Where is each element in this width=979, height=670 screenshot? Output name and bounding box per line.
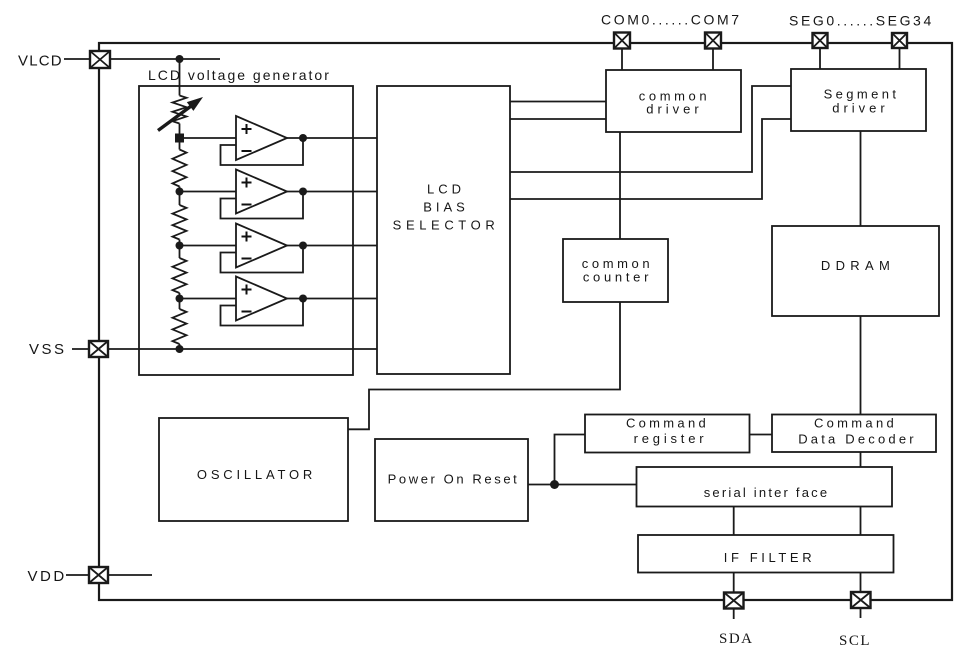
wire serial interface to IF filter left (733, 507, 735, 536)
svg-text:VDD: VDD (28, 568, 67, 585)
svg-text:VSS: VSS (29, 341, 67, 358)
node tap4 (176, 295, 184, 303)
node tap1 square junction (175, 134, 184, 143)
wire VLCD pin to ladder stub (109, 58, 220, 60)
op-amp U1 feedback loop (221, 138, 304, 165)
pin VDD (89, 567, 108, 583)
LCD voltage generator box (139, 86, 353, 375)
pin SDA (724, 593, 744, 609)
wire command register to command data decoder (750, 434, 773, 436)
resistor R4 (173, 258, 187, 293)
common driver box (606, 70, 741, 132)
wire COM7 pin to common driver (712, 49, 714, 71)
wire VSS pin to bias selector (108, 348, 377, 350)
svg-text:DDRAM: DDRAM (821, 258, 895, 273)
wire COM0 pin to common driver (621, 49, 623, 71)
svg-text:SEG0......SEG34: SEG0......SEG34 (789, 13, 934, 29)
wire VLCD tap down to variable resistor (179, 59, 181, 96)
node op-amp U1 output (299, 134, 307, 142)
wire bias selector to common driver line2 (510, 118, 606, 120)
wire tap1 to op-amp U1 input (180, 137, 237, 139)
resistor R3 (173, 205, 187, 240)
wire DDRAM to command data decoder (860, 316, 862, 415)
wire segment driver to DDRAM (860, 131, 862, 226)
wire tap2 to op-amp U2 input (180, 191, 237, 193)
wire tap3 to op-amp U3 input (180, 245, 237, 247)
IF FILTER box (638, 535, 894, 573)
wire bias selector to common driver line1 (510, 101, 606, 103)
node op-amp U3 output (299, 242, 307, 250)
Command register box (585, 415, 750, 453)
wire VDD label to pin (66, 574, 89, 576)
DDRAM box (772, 226, 939, 316)
wire R3 to tap3 (179, 240, 181, 259)
pin SCL (851, 592, 871, 608)
resistor R5 (173, 309, 187, 344)
variable resistor R1 arrow (158, 97, 203, 131)
svg-text:SDA: SDA (719, 631, 754, 647)
svg-text:Segmentdriver: Segmentdriver (824, 87, 900, 116)
wire R5 to VSS line (179, 344, 181, 349)
svg-text:COM0......COM7: COM0......COM7 (601, 12, 742, 28)
resistor R2 (173, 150, 187, 187)
svg-text:commondriver: commondriver (639, 89, 710, 117)
wire R1 to tap1 (179, 124, 181, 134)
wire op-amp U1 output to bias selector (287, 137, 377, 139)
Power On Reset box (375, 439, 528, 521)
op-amp U3 (236, 224, 287, 268)
wire serial interface to IF filter right (860, 507, 862, 536)
variable resistor R1 zigzag (173, 96, 187, 124)
wire op-amp U2 output to bias selector (287, 191, 377, 193)
wire power on reset output to serial interface (528, 484, 637, 486)
wire command data decoder to serial interface (860, 452, 862, 467)
svg-text:VLCD: VLCD (18, 53, 63, 70)
svg-text:commoncounter: commoncounter (582, 256, 653, 285)
op-amp U4 (236, 277, 287, 321)
node VSS ladder junction (176, 345, 184, 353)
node tap2 (176, 188, 184, 196)
OSCILLATOR box (159, 418, 348, 521)
svg-text:Commandregister: Commandregister (626, 416, 709, 447)
op-amp U2 (236, 170, 287, 214)
serial interface box (637, 467, 893, 507)
Command Data Decoder box (772, 415, 936, 453)
node op-amp U4 output (299, 295, 307, 303)
svg-text:serial inter face: serial inter face (704, 485, 830, 500)
pin COM7 (705, 33, 721, 49)
op-amp U3 feedback loop (221, 246, 304, 273)
wire op-amp U3 output to bias selector (287, 245, 377, 247)
pin SEG34 (892, 33, 907, 48)
wire SEG34 pin to segment driver (899, 48, 901, 69)
wire R2 to tap2 (179, 187, 181, 206)
node VLCD tap junction (176, 55, 184, 63)
op-amp U1 (236, 116, 287, 160)
wire common driver to common counter (619, 132, 621, 239)
wire SCL pin stub below (860, 608, 862, 618)
wire bias selector to segment driver upper (510, 86, 791, 172)
wire IF filter to SCL pin (860, 573, 862, 593)
wire SDA pin stub below (733, 609, 735, 620)
common counter box (563, 239, 668, 302)
wire VSS label to pin (72, 348, 89, 350)
node power on reset junction (550, 480, 559, 489)
op-amp U2 feedback loop (221, 192, 304, 219)
wire VDD pin stub (108, 574, 152, 576)
wire op-amp U4 output to bias selector (287, 298, 377, 300)
wire R4 to tap4 (179, 293, 181, 309)
LCD BIAS SELECTOR box U2 (377, 86, 510, 374)
svg-text:SCL: SCL (839, 633, 871, 649)
pin VSS (89, 341, 108, 357)
node op-amp U2 output (299, 188, 307, 196)
pin VLCD (90, 51, 110, 68)
svg-text:IF FILTER: IF FILTER (724, 550, 815, 565)
pin COM0 (614, 33, 630, 49)
wire IF filter to SDA pin (733, 573, 735, 593)
wire tap4 to op-amp U4 input (180, 298, 237, 300)
svg-text:LCD voltage generator: LCD voltage generator (148, 67, 331, 83)
wire bias selector to segment driver lower (510, 119, 791, 199)
wire SEG0 pin to segment driver (819, 48, 821, 69)
pin SEG0 (813, 33, 828, 48)
svg-text:OSCILLATOR: OSCILLATOR (197, 467, 316, 482)
svg-text:Power On Reset: Power On Reset (388, 472, 520, 487)
chip outline border (99, 43, 952, 600)
wire VLCD label to pin (64, 58, 90, 60)
wire junction up to command register (555, 435, 586, 485)
wire tap1 to R2 (179, 143, 181, 150)
wire common counter to oscillator (348, 302, 620, 429)
segment driver box (791, 69, 926, 131)
op-amp U4 feedback loop (221, 299, 304, 326)
node tap3 (176, 242, 184, 250)
